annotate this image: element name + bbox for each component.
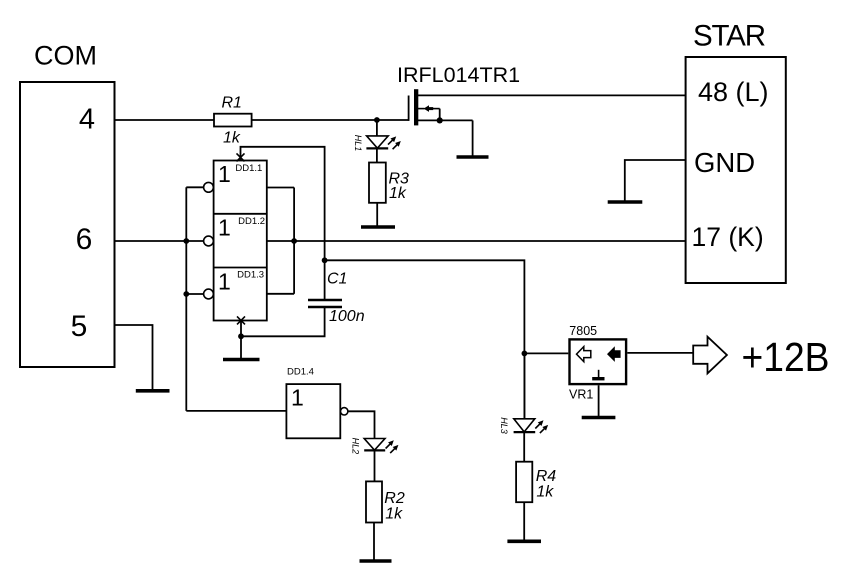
svg-text:7805: 7805: [569, 324, 597, 338]
svg-text:R4: R4: [536, 468, 557, 485]
wire DD1.1 output: [267, 187, 294, 189]
connector STAR box: [686, 57, 786, 283]
wire input rail: [185, 187, 187, 411]
wire 7805 column to HL3: [523, 353, 525, 419]
wire DD1.3 output: [267, 293, 294, 295]
ground (7805): [582, 416, 616, 420]
output bubble DD1.4: [341, 408, 348, 415]
wire COM pin5: [115, 325, 153, 390]
ground (C1/DD1.3): [223, 358, 260, 362]
regulator VR1 7805 box: [570, 339, 627, 384]
LED HL3: [514, 419, 549, 433]
wire COM pin4 to R1: [115, 119, 215, 121]
svg-text:HL1: HL1: [353, 135, 363, 152]
svg-text:1: 1: [291, 385, 304, 411]
regulator input arrow (white): [577, 347, 591, 362]
wire R1 to MOSFET gate: [252, 119, 409, 121]
svg-text:+12В: +12В: [742, 334, 830, 380]
svg-text:1: 1: [218, 268, 231, 294]
arrow +12V output: [693, 337, 727, 374]
junction node rail/DD1.3: [183, 291, 189, 297]
wire 7805 output to arrow: [627, 352, 693, 354]
svg-text:1k: 1k: [223, 130, 241, 147]
LED HL1: [366, 136, 400, 149]
junction node output rail: [291, 238, 297, 244]
resistor R4: [516, 462, 532, 503]
wire stub DD1.1 input: [186, 186, 203, 188]
svg-text:HL3: HL3: [499, 417, 509, 434]
wire 7805 input: [524, 352, 568, 354]
gate block DD1.1-DD1.3: [214, 161, 267, 321]
wire MOSFET source to ground: [472, 120, 474, 156]
ground (R2): [360, 559, 392, 563]
svg-text:IRFL014TR1: IRFL014TR1: [397, 63, 520, 87]
wire 7805 ground pin: [598, 385, 600, 417]
wire DD1.3 bottom pin: [240, 321, 242, 337]
junction node 7805 input: [522, 351, 528, 357]
wire MOSFET drain to STAR 48(L): [418, 94, 686, 96]
ground (R3): [361, 225, 395, 229]
wire HL2 to R2: [374, 450, 376, 481]
input bubble DD1.1: [204, 182, 214, 192]
svg-text:17 (K): 17 (K): [692, 222, 764, 252]
regulator ground mark: [592, 370, 604, 381]
gate DD1.4: [286, 384, 340, 438]
wire output rail: [293, 188, 295, 294]
ground (R4): [507, 539, 541, 543]
svg-text:C1: C1: [327, 271, 347, 288]
regulator output arrow (black): [607, 346, 621, 362]
ground (MOSFET source): [457, 155, 489, 159]
svg-text:HL2: HL2: [350, 438, 360, 455]
wire DD1.4 output to HL2: [348, 411, 375, 439]
junction node R1/HL1: [374, 117, 380, 123]
pin cross DD1.1 top: [237, 153, 245, 161]
wire HL1 to R3: [376, 148, 378, 162]
wire C1 bottom to DD1.3 pin: [241, 307, 325, 336]
wire DD1.2 output to STAR 17(K): [267, 240, 686, 242]
svg-text:GND: GND: [694, 147, 755, 178]
connector COM box: [20, 82, 115, 367]
svg-text:1: 1: [218, 215, 231, 241]
svg-text:STAR: STAR: [693, 20, 766, 53]
wire DD1.1 top pin loop: [241, 147, 325, 299]
ground (COM pin5): [136, 389, 170, 393]
junction node rail/pin6: [183, 238, 189, 244]
junction node DD1.3 bottom: [238, 333, 244, 339]
svg-text:R1: R1: [222, 95, 242, 112]
capacitor C1: [308, 300, 342, 307]
wire rail to DD1.4 input: [186, 410, 286, 412]
wire R3 to ground: [376, 203, 378, 227]
resistor R2: [366, 481, 382, 522]
svg-text:DD1.4: DD1.4: [287, 367, 314, 378]
wire HL3 to R4: [523, 432, 525, 462]
wire stub DD1.3 input: [186, 293, 203, 295]
svg-text:DD1.3: DD1.3: [237, 270, 264, 281]
wire STAR GND: [625, 160, 686, 202]
wire COM pin6 to DD1 input: [115, 240, 204, 242]
svg-text:1k: 1k: [536, 484, 554, 501]
svg-text:R2: R2: [384, 490, 405, 507]
svg-text:6: 6: [76, 223, 93, 256]
svg-text:DD1.1: DD1.1: [235, 163, 262, 174]
svg-text:DD1.2: DD1.2: [238, 216, 265, 227]
svg-text:VR1: VR1: [569, 388, 593, 402]
svg-text:1k: 1k: [385, 506, 403, 523]
svg-text:1: 1: [218, 161, 231, 187]
junction node C1 branch: [322, 257, 328, 263]
svg-text:100n: 100n: [329, 308, 365, 325]
input bubble DD1.2: [204, 236, 214, 246]
transistor Q1 IRFL014TR1: [409, 89, 473, 125]
resistor R1: [214, 114, 252, 127]
svg-text:COM: COM: [34, 41, 97, 71]
input bubble DD1.3: [204, 289, 214, 299]
wire R4 to ground: [523, 502, 525, 541]
svg-text:5: 5: [71, 310, 88, 343]
wire node to ground (C1): [240, 336, 242, 359]
wire R2 to ground: [373, 523, 375, 561]
wire node to LED HL1: [376, 120, 378, 136]
LED HL2: [364, 439, 398, 454]
resistor R3: [369, 163, 386, 203]
wire branch to 7805 column: [325, 260, 525, 419]
pin cross DD1.3 bottom: [237, 316, 245, 324]
svg-text:1k: 1k: [389, 185, 407, 202]
svg-text:4: 4: [79, 104, 95, 136]
ground (STAR GND): [608, 200, 643, 204]
svg-text:48 (L): 48 (L): [698, 77, 769, 107]
